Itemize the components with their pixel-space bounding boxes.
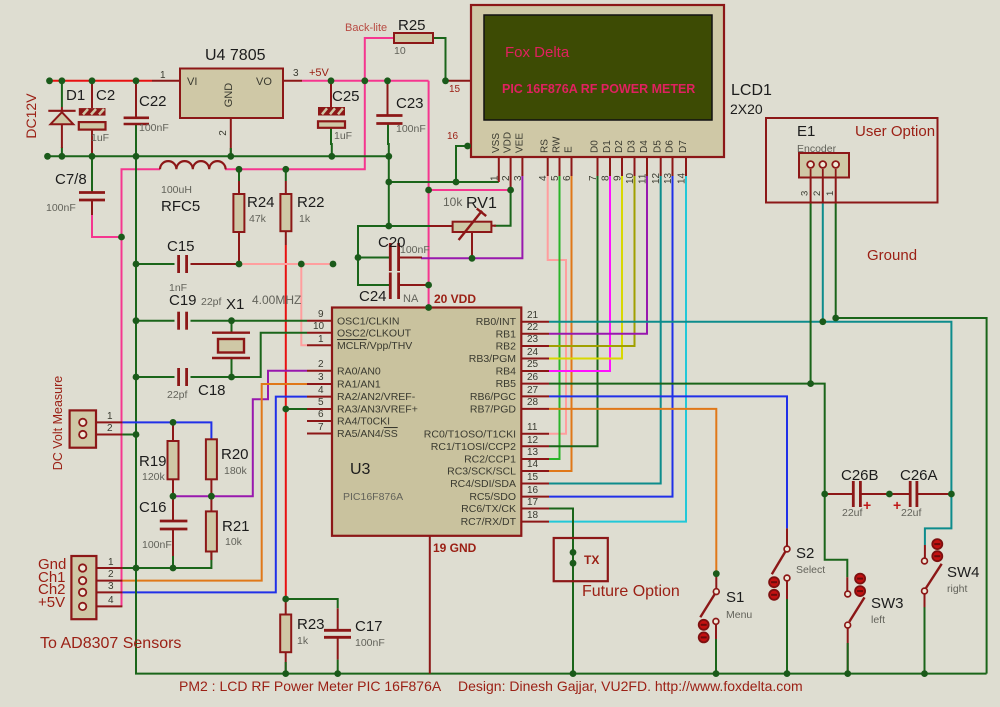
wire LCD pin14 D7 stub — [685, 157, 687, 176]
svg-text:2: 2 — [108, 569, 114, 580]
svg-text:100nF: 100nF — [46, 202, 76, 214]
svg-text:D5: D5 — [653, 140, 664, 153]
resistor R23 — [280, 615, 291, 653]
svg-text:RV1: RV1 — [466, 195, 497, 212]
svg-text:17: 17 — [527, 497, 539, 508]
svg-text:14: 14 — [677, 172, 688, 184]
wire PIC pin17 stub — [521, 508, 549, 510]
wire VSS to C20/C24 bracket and RV1 left (green) — [358, 226, 390, 285]
svg-text:RB0/INT: RB0/INT — [476, 316, 517, 328]
wire C19 left from GND rail (green) — [136, 320, 175, 322]
svg-text:+: + — [863, 497, 871, 513]
diode D1 — [48, 107, 75, 148]
junction C17 bottom on bus — [334, 670, 341, 677]
svg-text:+: + — [893, 497, 901, 513]
switch SW4 right — [922, 539, 943, 594]
wire DC12V +12V rail (red) — [50, 80, 153, 82]
junction VSS/pin16 branch — [453, 179, 460, 186]
wire RB5 net (green) PIC pin26 to encoder pin3 / SW3 / C26B — [549, 383, 811, 385]
svg-text:100nF: 100nF — [142, 539, 172, 551]
svg-text:RB2: RB2 — [496, 341, 517, 353]
svg-text:4: 4 — [318, 385, 324, 396]
svg-text:C2: C2 — [96, 87, 115, 104]
wire C18 left from GND rail (green) — [136, 376, 175, 378]
junction S1 top orange — [713, 570, 720, 577]
svg-text:2X20: 2X20 — [730, 101, 763, 117]
svg-text:3: 3 — [513, 175, 524, 181]
svg-text:2: 2 — [107, 423, 113, 434]
wire PIC pin6 stub — [307, 420, 332, 422]
svg-text:SW3: SW3 — [871, 595, 904, 612]
svg-text:VDD: VDD — [503, 132, 514, 153]
wire LCD pin10 D3 stub — [634, 157, 636, 176]
capacitor C19 — [179, 312, 187, 330]
wire E net (orange) LCD pin6 to PIC pin14 — [549, 176, 572, 471]
wire PIC pin19 GND to bus (dark red) — [429, 536, 431, 674]
svg-text:RA4/T0CKI: RA4/T0CKI — [337, 416, 390, 428]
wire LCD pin2 stub (dark red) — [510, 157, 512, 190]
wire +5V rail (pink) VO to corner — [302, 80, 429, 82]
svg-text:LCD1: LCD1 — [731, 82, 772, 99]
wire S2 top stub — [786, 528, 788, 546]
svg-text:16: 16 — [527, 485, 539, 496]
capacitor C2 (polarized) — [79, 108, 106, 130]
wire RW net (bright green) LCD pin5 to PIC pin13 — [549, 176, 560, 459]
junction D1 top — [59, 77, 66, 84]
junction encoder pin2 on RB0 teal — [819, 318, 826, 325]
wire D2 net (yellow) LCD pin9 to PIC pin24 — [549, 176, 622, 359]
svg-text:RB4: RB4 — [496, 366, 517, 378]
svg-text:Fox Delta: Fox Delta — [505, 44, 570, 61]
wire R23 top stub — [285, 599, 287, 615]
wire OSC2 net C18 right, up and to PIC pin10 (green) — [191, 333, 308, 377]
svg-text:3: 3 — [108, 581, 114, 592]
junction C7/8 to pink net — [118, 234, 125, 241]
TX future option box — [554, 538, 608, 581]
wire LCD pin12 D5 stub — [660, 157, 662, 176]
switch SW3 left — [845, 574, 865, 628]
capacitor C17 — [324, 630, 351, 637]
svg-text:100nF: 100nF — [355, 637, 385, 649]
junction R20 bottom / R21 top / RA0 — [208, 493, 215, 500]
wire GND left vertical rail x=136 (green) — [135, 156, 137, 568]
PIC left pin numbers — [313, 309, 325, 433]
wire U4 pin2 GND to bus (green) — [230, 118, 232, 156]
wire LCD pin8 D1 stub — [609, 157, 611, 176]
svg-text:RA5/AN4/SS: RA5/AN4/SS — [337, 428, 398, 440]
junction backlite branch on +5V — [361, 77, 368, 84]
wire R21 top stub — [210, 496, 212, 511]
svg-text:RFC5: RFC5 — [161, 198, 200, 215]
svg-text:9: 9 — [613, 175, 624, 181]
svg-text:U3: U3 — [350, 461, 371, 478]
wire R19 top stub — [172, 422, 174, 441]
wire RV1 wiper down to VEE (dark red) — [471, 232, 473, 258]
wire PIC pin23 stub — [521, 345, 549, 347]
wire PIC pin18 stub — [521, 521, 549, 523]
svg-text:RC6/TX/CK: RC6/TX/CK — [461, 503, 516, 515]
junction S2 on bus — [784, 670, 791, 677]
svg-text:X1: X1 — [226, 296, 244, 313]
svg-text:Future Option: Future Option — [582, 583, 680, 600]
junction VDD pink to LCD pin2 — [507, 187, 514, 194]
wire RS net (salmon) LCD pin4 to PIC pin11 — [548, 176, 566, 434]
svg-text:RB6/PGC: RB6/PGC — [470, 391, 517, 403]
wire VEE net (purple): pin3 down, across to C20 right — [472, 176, 522, 258]
svg-text:E1: E1 — [797, 123, 815, 140]
wire PIC pin21 stub — [521, 321, 549, 323]
wire C25 bottom to bus (green) — [330, 128, 333, 157]
junction X1 top — [228, 317, 235, 324]
junction GND bus left end — [44, 153, 51, 160]
wire PIC pin22 stub — [521, 333, 549, 335]
wire PIC pin26 stub — [521, 383, 549, 385]
svg-text:VI: VI — [187, 76, 197, 88]
svg-text:8: 8 — [601, 175, 612, 181]
svg-text:RC1/T1OSI/CCP2: RC1/T1OSI/CCP2 — [431, 441, 516, 453]
junction encoder pin1 ground line — [832, 315, 839, 322]
capacitor C26A (polarized) — [910, 481, 917, 507]
svg-text:OSC2/CLKOUT: OSC2/CLKOUT — [337, 328, 412, 340]
wire RV1 right to VDD junction (green) — [494, 190, 511, 226]
inductor RFC5 — [160, 161, 226, 169]
junction TX line on bus — [570, 670, 577, 677]
junction RB5 at encoder pin3 — [807, 380, 814, 387]
wire C23 top stub from +5V — [387, 81, 389, 115]
wire C7/8 top from bus (green) — [91, 156, 93, 192]
resistor R22 — [280, 194, 291, 231]
wire C20 left plate branch (green) — [358, 257, 390, 259]
svg-text:100nF: 100nF — [400, 244, 430, 256]
wire conn J2 pin2 Ch1 stub — [96, 580, 122, 582]
svg-text:1: 1 — [107, 411, 113, 422]
svg-text:3: 3 — [293, 68, 299, 79]
svg-text:100nF: 100nF — [139, 122, 169, 134]
wire D5 net (teal) LCD pin12 to PIC pin15 — [549, 176, 661, 484]
svg-text:PM2 : LCD RF Power Meter PIC 1: PM2 : LCD RF Power Meter PIC 16F876A — [179, 678, 442, 694]
svg-text:C22: C22 — [139, 93, 167, 110]
switch S1 Menu — [699, 589, 719, 643]
svg-text:47k: 47k — [249, 213, 267, 225]
resistor R21 — [206, 511, 217, 551]
wire C17 bottom to GND bus — [337, 637, 339, 659]
wire D7 net (cyan) LCD pin14 to PIC pin18 — [549, 176, 686, 522]
svg-text:D6: D6 — [665, 140, 676, 153]
wire LCD pin9 D2 stub — [621, 157, 623, 176]
wire conn J2 pin4 +5V stub — [96, 605, 122, 607]
svg-text:100uH: 100uH — [161, 184, 192, 196]
svg-text:To AD8307 Sensors: To AD8307 Sensors — [40, 635, 181, 652]
svg-text:RA0/AN0: RA0/AN0 — [337, 366, 381, 378]
svg-text:24: 24 — [527, 347, 539, 358]
wire PIC pin16 stub — [521, 496, 549, 498]
LCD1 screen — [484, 15, 712, 120]
wire C26B left leg — [825, 493, 854, 495]
wire SW4 bottom to bus — [924, 594, 926, 674]
wire PIC pin9 stub — [307, 320, 332, 322]
svg-text:7: 7 — [318, 422, 324, 433]
wire RB0 net (teal) PIC pin21 to C26A right / SW4 — [549, 322, 951, 494]
connector J1 DC Volt Measure — [70, 410, 96, 447]
svg-text:OSC1/CLKIN: OSC1/CLKIN — [337, 316, 399, 328]
svg-text:RC5/SDO: RC5/SDO — [469, 491, 516, 503]
svg-text:22pf: 22pf — [201, 296, 222, 308]
PIC right pin numbers — [527, 310, 539, 521]
junction C25 bottom — [328, 153, 335, 160]
wire PIC pin10 stub — [307, 332, 332, 334]
svg-text:10: 10 — [313, 321, 325, 332]
svg-text:U4 7805: U4 7805 — [205, 47, 266, 64]
junction R19 top on blue net — [170, 419, 177, 426]
wire RB5 net to C26B left and SW3 (green) — [811, 384, 825, 494]
svg-text:C26A: C26A — [900, 467, 938, 484]
junction C22 top — [133, 77, 140, 84]
svg-text:C24: C24 — [359, 288, 387, 305]
svg-text:E: E — [564, 146, 575, 153]
wire PIC pin25 stub — [521, 370, 549, 372]
switch S2 Select — [769, 546, 790, 600]
PIC left pin names — [337, 316, 418, 441]
wire Back-lite (pink) R25 left leg — [365, 38, 394, 81]
wire U4 VI pin stub — [152, 80, 180, 82]
wire R20 bottom to divider node — [210, 479, 212, 496]
junction red net at R23/C17 — [282, 596, 289, 603]
wire encoder pin2 (teal) up from RB0 net — [822, 202, 824, 322]
junction S1 on bus — [713, 670, 720, 677]
svg-text:10k: 10k — [225, 536, 243, 548]
svg-text:6: 6 — [318, 409, 324, 420]
svg-text:12: 12 — [651, 172, 662, 184]
wire Gnd pin1 line (green) — [122, 552, 211, 569]
svg-text:D2: D2 — [614, 140, 625, 153]
resistor R25 — [394, 33, 433, 43]
svg-text:Select: Select — [796, 564, 825, 576]
capacitor C16 — [160, 521, 188, 529]
junction SW3 on bus — [844, 670, 851, 677]
svg-text:Menu: Menu — [726, 609, 752, 621]
svg-text:RB5: RB5 — [496, 378, 517, 390]
junction U4 GND pin — [227, 153, 234, 160]
junction VSS line to LCD — [385, 179, 392, 186]
svg-text:DC Volt Measure: DC Volt Measure — [51, 376, 65, 471]
wire D1 net (magenta) LCD pin8 to PIC pin25 — [549, 176, 610, 371]
wire D3 net (olive) LCD pin10 to PIC pin23 — [549, 176, 635, 346]
junction DC volt pin2 to GND rail — [133, 431, 140, 438]
svg-text:5: 5 — [550, 175, 561, 181]
svg-text:PIC16F876A: PIC16F876A — [343, 491, 403, 503]
LCD1 display module frame — [471, 5, 724, 157]
wire S1 bottom to bus — [715, 624, 717, 674]
svg-text:RS: RS — [540, 139, 551, 153]
svg-text:1uF: 1uF — [334, 130, 352, 142]
svg-text:1k: 1k — [297, 635, 309, 647]
wire C22 bottom to bus (green) — [135, 124, 137, 156]
wire C26B/C26A middle leg — [860, 493, 910, 495]
wire LCD pin13 D6 stub — [672, 157, 674, 176]
svg-text:22: 22 — [527, 322, 539, 333]
wire C24 right plate to VDD pink (dark red) — [399, 284, 429, 286]
junction C26A right — [948, 491, 955, 498]
svg-text:Design: Dinesh Gajjar, VU2FD.: Design: Dinesh Gajjar, VU2FD. http://www… — [458, 678, 803, 694]
svg-text:120k: 120k — [142, 471, 166, 483]
wire R23 bottom to GND bus — [285, 652, 287, 673]
svg-text:PIC 16F876A RF POWER METER: PIC 16F876A RF POWER METER — [502, 82, 695, 96]
svg-text:SW4: SW4 — [947, 564, 980, 581]
wire C2 bottom to bus — [91, 130, 93, 157]
wire R25 right to LCD pin15 (green) — [433, 38, 446, 81]
svg-text:right: right — [947, 583, 968, 595]
svg-text:MCLR/Vpp/THV: MCLR/Vpp/THV — [337, 340, 412, 352]
wire +5V filtered rail left of RFC5 (pink) — [122, 169, 161, 606]
junction R24 top on +5V pink rail — [236, 166, 243, 173]
svg-text:RA3/AN3/VREF+: RA3/AN3/VREF+ — [337, 404, 418, 416]
svg-text:19 GND: 19 GND — [433, 541, 477, 555]
wire C15 left from GND rail (green) — [136, 263, 175, 265]
svg-text:1k: 1k — [299, 213, 311, 225]
wire RC6 net (green) PIC pin17 to TX and GND bus — [549, 509, 573, 674]
svg-text:15: 15 — [527, 472, 539, 483]
regulator U4 7805 body — [180, 69, 283, 119]
wire SW3 bottom to bus — [847, 628, 849, 674]
svg-text:4: 4 — [108, 595, 114, 606]
wire PIC pin7 stub — [307, 433, 332, 435]
wire LCD pin16 stub — [468, 145, 471, 147]
svg-text:10k: 10k — [443, 195, 463, 209]
svg-text:27: 27 — [527, 385, 539, 396]
svg-text:2: 2 — [218, 130, 229, 136]
junction C20 left — [355, 254, 362, 261]
svg-text:2: 2 — [318, 359, 324, 370]
wire D0 net (dark green) LCD pin7 to PIC pin12 — [549, 176, 598, 446]
junction C16 bottom on Gnd line — [170, 565, 177, 572]
svg-text:20 VDD: 20 VDD — [434, 292, 476, 306]
wire conn J2 pin3 Ch2 stub — [96, 591, 122, 593]
svg-text:1: 1 — [318, 334, 324, 345]
junction MCLR end — [330, 261, 337, 268]
svg-text:22uf: 22uf — [901, 507, 922, 519]
wire D1 bottom to bus (green) — [61, 147, 63, 156]
svg-text:R25: R25 — [398, 17, 426, 34]
wire PIC pin28 stub — [521, 408, 549, 410]
wire PIC pin11 stub — [521, 433, 549, 435]
svg-text:25: 25 — [527, 359, 539, 370]
svg-text:DC12V: DC12V — [23, 93, 39, 139]
LCD pin names rotated — [491, 132, 689, 153]
wire C22 top stub — [135, 81, 137, 117]
wire RB6 net (blue) PIC pin27 to S2 — [549, 396, 787, 528]
connector J2 To AD8307 Sensors — [71, 556, 96, 619]
wire PIC pin27 stub — [521, 395, 549, 397]
svg-text:C19: C19 — [169, 292, 197, 309]
wire LCD pin3 VEE stub (dark red) — [521, 157, 523, 176]
junction C23 bottom / VSS branch — [385, 153, 392, 160]
svg-text:13: 13 — [527, 447, 539, 458]
svg-text:R21: R21 — [222, 518, 250, 535]
wire PIC pin14 stub — [521, 470, 549, 472]
wire C16 bottom to Gnd line — [172, 529, 174, 568]
svg-text:RC2/CCP1: RC2/CCP1 — [464, 454, 516, 466]
potentiometer RV1 — [453, 209, 492, 241]
wire RA3 pin5 link from red net (green) — [286, 408, 307, 410]
junction R19 bottom / C16 / RA0 — [170, 493, 177, 500]
svg-text:RA2/AN2/VREF-: RA2/AN2/VREF- — [337, 391, 416, 403]
svg-text:3: 3 — [318, 372, 324, 383]
resistor R19 — [168, 441, 179, 479]
svg-text:Ground: Ground — [867, 247, 917, 264]
svg-text:180k: 180k — [224, 465, 248, 477]
wire R19 bottom to divider node — [172, 479, 174, 496]
wire C16 top stub — [172, 496, 174, 521]
svg-text:TX: TX — [584, 553, 599, 567]
wire LCD VSS net: pin1 down + run to x=389 (green) — [389, 181, 499, 183]
junction VDD at PIC pin20 — [425, 304, 432, 311]
svg-text:16: 16 — [447, 131, 459, 142]
capacitor C7/8 — [79, 193, 105, 216]
wire LCD pin4 RS stub — [547, 157, 549, 176]
svg-text:3: 3 — [800, 191, 811, 196]
junction 12V rail end — [46, 77, 53, 84]
junction C22 bottom — [133, 153, 140, 160]
wire PIC pin5 stub — [307, 408, 332, 410]
junction C25 top on +5V — [328, 77, 335, 84]
junction RA3 red net at PIC pin5 — [282, 406, 289, 413]
svg-text:left: left — [871, 614, 885, 626]
wire conn J2 pin1 Gnd stub — [96, 567, 122, 569]
wire SW3 top stub — [846, 577, 848, 591]
svg-text:9: 9 — [318, 309, 324, 320]
wire DC Volt pin1 to R19/R20 top (blue) — [122, 422, 211, 439]
svg-text:S1: S1 — [726, 589, 744, 606]
encoder E1 body — [799, 153, 849, 178]
junction C18 left on GND rail — [133, 374, 140, 381]
junction LCD pin16 — [464, 143, 471, 150]
svg-text:+5V: +5V — [309, 67, 330, 79]
wire PIC pin1 stub — [307, 344, 332, 346]
wire encoder pin3 stub — [810, 178, 812, 202]
wire LCD pin5 RW stub — [559, 157, 561, 176]
wire DC Volt pin2 stub — [96, 434, 122, 436]
svg-text:User Option: User Option — [855, 123, 935, 140]
capacitor C15 — [179, 255, 187, 273]
svg-text:C7/8: C7/8 — [55, 171, 87, 188]
junction VSS to RV1-left rail — [385, 223, 392, 230]
wire RB7 net (orange) PIC pin28 to S1 — [549, 409, 716, 574]
wire encoder pin1 to Ground line (green) — [835, 178, 837, 202]
microcontroller U3 PIC16F876A body — [332, 308, 521, 536]
svg-text:VO: VO — [256, 76, 272, 88]
svg-text:11: 11 — [527, 422, 538, 433]
wire encoder pin2 stub — [822, 178, 824, 202]
wire PIC pin13 stub — [521, 458, 549, 460]
svg-text:C26B: C26B — [841, 467, 879, 484]
wire C7/8 bottom jog (pink) — [92, 215, 122, 237]
wire C17 top stub — [337, 608, 339, 630]
resistor R24 — [233, 194, 244, 232]
capacitor C23 — [376, 116, 402, 124]
svg-text:RC0/T1OSO/T1CKI: RC0/T1OSO/T1CKI — [424, 429, 516, 441]
wire GND bus top (green) — [48, 155, 389, 157]
svg-text:2: 2 — [812, 191, 823, 196]
wire RA0 net (purple) PIC pin2 jog down-left — [173, 371, 307, 496]
svg-text:Encoder: Encoder — [797, 143, 837, 155]
wire R22 top from +5V rail (green+red) — [285, 169, 287, 181]
junction C2 top — [89, 77, 96, 84]
svg-text:4.00MHZ: 4.00MHZ — [252, 293, 301, 307]
wire LCD pin6 E stub — [571, 157, 573, 176]
svg-text:RB3/PGM: RB3/PGM — [469, 353, 516, 365]
wire 12V left vertical D1 top (green) — [61, 81, 63, 107]
wire RA2 net (blue) PIC pin4 down to Ch2 — [122, 397, 307, 593]
